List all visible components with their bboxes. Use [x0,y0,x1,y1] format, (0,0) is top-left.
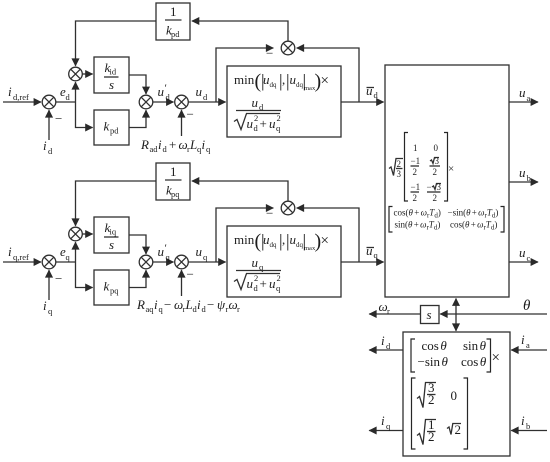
svg-text:−: − [187,107,194,122]
svg-text:u: u [247,276,254,291]
wire J3q to J4q [153,261,174,263]
svg-text:u: u [252,255,259,270]
matrix 3x2 entries [411,143,442,203]
svg-text:id: id [110,67,117,77]
svg-text:2: 2 [428,429,435,444]
label ud_bar [366,83,379,100]
svg-text:k: k [104,279,110,294]
summing junction J2d [69,67,83,81]
svg-text:r: r [237,304,240,314]
wire iq feedback input [48,270,50,300]
wire output iq [369,430,403,432]
svg-text:×: × [448,163,454,175]
wire kiq/s to J3q [129,235,146,254]
wire J2q to kiq/s [82,233,92,235]
svg-text:2: 2 [277,113,281,123]
wire min d to transform block [341,101,384,103]
svg-text:a: a [526,340,530,350]
svg-text:−: − [427,182,432,192]
wire eq [56,261,76,263]
wire decoupling input J4d [181,110,183,136]
wire J4q to min block [188,261,225,263]
svg-text:dq: dq [270,81,278,89]
summing junction J1q [42,255,56,269]
bracket right clarke matrix [464,378,468,449]
wire kpd to J3d [129,110,146,127]
matrix bracket right (3x2) [444,133,448,202]
wire input ib [511,430,547,432]
svg-text:i: i [521,332,525,347]
label wr [379,299,391,316]
label iq,ref [8,244,29,262]
svg-text:0: 0 [434,143,439,153]
block kiq/s [94,217,129,253]
svg-text:−: − [207,297,214,312]
block min limiter d [227,66,341,137]
label ub [519,165,531,183]
label id out [381,333,391,351]
bracket left clarke matrix [412,378,416,449]
matrix sqrt(2/3) coefficient [389,159,403,180]
wire id feedback input [48,110,50,140]
svg-text:s: s [109,77,114,92]
svg-text:i: i [158,137,162,152]
wire ud tap to J5d [216,48,273,102]
svg-text:+: + [169,137,176,152]
svg-text:c: c [527,253,531,263]
label ud [196,84,209,102]
svg-text:2: 2 [428,392,435,407]
wire uq tap to J5q [216,208,273,262]
svg-text:2: 2 [413,167,418,177]
svg-text:2: 2 [455,422,462,437]
svg-text:−1: −1 [411,156,421,166]
svg-text:a: a [527,93,531,103]
label u'd [158,83,171,103]
svg-text:u: u [158,84,165,99]
wire theta branch down to park [455,314,457,331]
svg-text:×: × [492,350,500,366]
svg-text:2: 2 [254,273,258,283]
svg-text:sinθ: sinθ [463,338,487,353]
block kpd [94,110,129,145]
wire theta input [440,313,547,315]
svg-text:i: i [197,297,201,312]
block 1/kpd [156,3,190,40]
svg-text:cosθ: cosθ [461,354,487,369]
svg-text:2: 2 [277,273,281,283]
svg-text:3: 3 [435,156,440,166]
svg-text:iq: iq [110,227,117,237]
label ua [519,85,531,103]
svg-text:u: u [519,85,526,100]
svg-text:pd: pd [110,126,119,136]
svg-text:2: 2 [397,159,402,169]
summing junction J2q [69,227,83,241]
bracket right rotation matrix [487,339,491,372]
label u'q [158,243,171,263]
svg-text:u: u [269,116,276,131]
svg-text:−: − [187,267,194,282]
wire ed riser to J2d [75,82,77,102]
svg-text:ad: ad [150,144,159,154]
wire kid/s to J3d [129,75,146,94]
block inverse park-clarke transform [385,65,509,297]
svg-text:i: i [381,333,385,348]
svg-text:b: b [527,173,531,183]
svg-text:u: u [366,83,373,98]
svg-text:u: u [366,243,373,258]
svg-text:i: i [521,413,525,428]
svg-text:3: 3 [437,182,442,192]
svg-text:,: , [282,232,285,247]
wire input id,ref [3,101,41,103]
svg-text:min: min [234,72,255,87]
svg-text:dq: dq [270,241,278,249]
block 1/kpq [156,163,190,200]
svg-text:1: 1 [170,4,177,19]
svg-text:,: , [282,72,285,87]
svg-text:1: 1 [170,164,177,179]
wire input ia [511,349,547,351]
svg-text:2: 2 [413,193,418,203]
svg-text:i: i [8,84,12,99]
wire antiwindup feedback to J2d [76,21,157,66]
svg-text:i: i [43,138,47,153]
wire min q to transform block [341,261,384,263]
svg-text:i: i [202,137,206,152]
label ia [521,332,530,350]
wire J5q to 1/kpq [192,181,288,201]
label ib [521,413,530,431]
svg-text:pd: pd [171,29,180,39]
matrix bracket right (rotation 2x2) [501,207,505,233]
svg-text:r: r [387,306,390,316]
svg-text:L: L [185,297,193,312]
wire kpq to J3q [129,270,146,287]
wire ed drop to kpd [76,102,93,128]
wire decoupling input J4q [181,270,183,296]
svg-text:2: 2 [433,167,438,177]
svg-text:1: 1 [413,143,418,153]
svg-text:−: − [55,271,62,286]
wire J5d to 1/kpd [192,21,288,41]
svg-text:pq: pq [110,286,119,296]
svg-text:2: 2 [254,113,258,123]
svg-text:+: + [260,276,267,291]
svg-text:−: − [55,111,62,126]
wire antiwindup feedback to J2q [76,181,157,226]
svg-text:+: + [260,116,267,131]
wire J2d to kid/s [82,73,92,75]
summing junction J5q [281,201,295,215]
rotation matrix entries [394,208,499,232]
svg-text:b: b [526,421,530,431]
svg-text:i: i [8,244,12,259]
svg-text:s: s [109,237,114,252]
wire wr output [369,313,420,315]
svg-text:×: × [321,73,329,89]
svg-text:2: 2 [433,193,438,203]
wire output id [369,349,403,351]
svg-text:−sinθ: −sinθ [418,354,449,369]
svg-text:aq: aq [146,304,155,314]
svg-text:−: − [266,206,273,221]
label uc [519,245,531,263]
svg-text:u: u [519,165,526,180]
svg-text:u: u [269,276,276,291]
clarke matrix entries [417,380,461,445]
block kid/s [94,57,129,93]
wire eq drop to kpq [76,262,93,288]
svg-text:R: R [140,137,149,152]
summing junction J3d [139,95,153,109]
wire theta branch up to transform [455,299,457,315]
svg-text:L: L [189,137,197,152]
wire ed [56,101,76,103]
svg-text:u: u [158,244,165,259]
block kpq [94,270,129,305]
matrix bracket left (3x2) [405,133,409,202]
svg-text:u: u [196,84,203,99]
summing junction J1d [42,95,56,109]
label id [43,138,53,156]
svg-text:R: R [136,297,145,312]
svg-text:−: − [164,297,171,312]
svg-text:u: u [252,95,259,110]
svg-text:k: k [104,119,110,134]
svg-text:i: i [381,413,385,428]
summing junction J3q [139,255,153,269]
svg-text:min: min [234,232,255,247]
wire output uc [509,261,538,263]
wire input iq,ref [3,261,41,263]
label iq out [381,413,391,431]
label iq [43,298,53,316]
bracket left rotation matrix [411,339,415,372]
summing junction J5d [281,41,295,55]
summing junction J4d [175,95,189,109]
svg-text:−1: −1 [411,182,421,192]
svg-text:u: u [247,116,254,131]
wire output ub [509,181,538,183]
svg-text:3: 3 [397,169,402,179]
svg-text:pq: pq [171,189,180,199]
wire ud_bar tap to J5d [297,48,359,102]
wire eq riser to J2q [75,242,77,262]
block s derivative [421,306,440,324]
label ed [60,84,71,102]
svg-text:q,ref: q,ref [13,252,29,262]
svg-text:u: u [519,245,526,260]
svg-text:d,ref: d,ref [13,92,29,102]
label id,ref [8,84,29,102]
label uq_bar [366,243,379,260]
wire J4d to min block [188,101,225,103]
wire J3d to J4d [153,101,174,103]
label uq [196,244,209,262]
label eq [60,244,71,262]
wire uq_bar tap to J5q [297,208,359,262]
svg-text:u: u [196,244,203,259]
svg-text:i: i [43,298,47,313]
svg-text:−: − [266,46,273,61]
label Raq iq - wr Ld id - psi_r wr [136,297,240,314]
block park transform currents [403,332,510,456]
svg-text:cosθ: cosθ [422,338,448,353]
summing junction J4q [175,255,189,269]
label Rad id + wr Lq iq [140,137,211,154]
matrix bracket left (rotation 2x2) [389,207,393,233]
svg-text:0: 0 [451,388,458,403]
svg-text:×: × [321,233,329,249]
wire output ua [509,101,538,103]
rotation matrix entries [418,338,487,369]
svg-text:s: s [427,307,432,322]
block min limiter q [227,226,341,297]
svg-text:i: i [154,297,158,312]
svg-text:θ: θ [523,298,531,314]
